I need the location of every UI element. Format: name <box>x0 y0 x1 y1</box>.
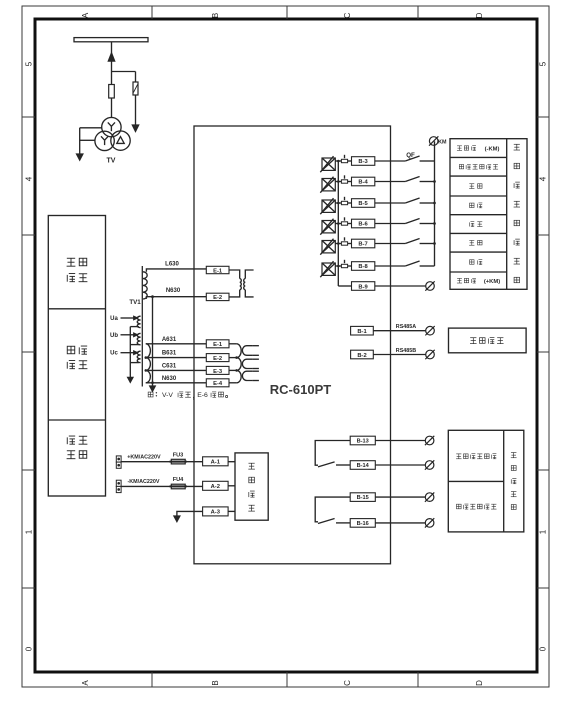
note V-V wiring text <box>148 392 228 400</box>
svg-text:B-7: B-7 <box>358 242 367 248</box>
wire power - to fuse FU4 <box>121 485 171 487</box>
label Ub <box>110 333 118 339</box>
svg-text:4: 4 <box>25 176 34 181</box>
svg-text:A-2: A-2 <box>211 484 220 490</box>
wire B-9 row <box>338 285 351 287</box>
svg-text:B-13: B-13 <box>357 439 369 445</box>
label RS485A <box>396 324 416 330</box>
svg-text:1: 1 <box>25 529 34 534</box>
svg-text:C: C <box>343 680 352 686</box>
terminal A-2 <box>203 481 229 490</box>
svg-text:B-16: B-16 <box>357 521 369 527</box>
terminal E-3 lower <box>206 366 229 374</box>
terminal E-2 upper <box>206 293 229 301</box>
svg-text:B-5: B-5 <box>358 201 368 207</box>
TV1 lower secondary winding group <box>145 344 151 383</box>
label Uc <box>110 351 118 357</box>
optocoupler U6 <box>320 261 335 277</box>
svg-text:D: D <box>475 12 484 18</box>
svg-text:1: 1 <box>539 529 548 534</box>
svg-text:-KM/AC220V: -KM/AC220V <box>127 479 159 485</box>
wire A-1 to power supply <box>228 461 235 463</box>
svg-text:B-9: B-9 <box>358 284 368 290</box>
svg-text:L630: L630 <box>165 261 179 267</box>
fuse FU3 <box>170 459 187 464</box>
wire TV1 primary common <box>130 327 139 378</box>
wire A-3 to power supply <box>228 510 235 512</box>
wire FU4 to A-2 <box>185 485 202 487</box>
terminal circle RS485A <box>425 326 434 335</box>
svg-text:TV1: TV1 <box>129 299 141 306</box>
optocoupler U4 <box>320 219 335 235</box>
label KM <box>438 140 447 146</box>
terminal B-6 <box>352 219 375 228</box>
fuse FU1 <box>109 85 115 99</box>
wire B-5 to switch <box>375 202 406 204</box>
wire opto to resistor row B-8 <box>335 265 341 267</box>
wire N630 lower <box>146 382 207 384</box>
terminal B-13 <box>350 436 375 445</box>
svg-text:RS485B: RS485B <box>396 348 416 354</box>
svg-text:C: C <box>343 12 352 18</box>
terminal B-5 <box>352 199 375 208</box>
terminal B-7 <box>352 239 375 248</box>
svg-text:B-8: B-8 <box>358 264 368 270</box>
svg-text:E-2: E-2 <box>213 356 222 362</box>
label -KM/AC220V <box>127 479 159 485</box>
busbar <box>74 38 148 42</box>
svg-text:E-3: E-3 <box>213 369 223 375</box>
wire resistor to terminal B-3 <box>348 160 352 162</box>
wire L630 <box>146 269 206 272</box>
resistor R8 <box>341 260 347 268</box>
optocoupler U3 <box>320 198 335 214</box>
TV1 primary winding Ub <box>137 333 140 344</box>
svg-text:E-1: E-1 <box>213 268 223 274</box>
wire resistor to terminal B-4 <box>348 181 352 183</box>
svg-text:C631: C631 <box>162 364 177 370</box>
wire opto to resistor row B-3 <box>335 160 341 162</box>
resistor R6 <box>341 217 347 225</box>
wire B-7 to switch <box>375 243 406 245</box>
fuse FU2 <box>133 82 138 95</box>
label B631 <box>162 351 177 357</box>
metering transformer lower secondary windings <box>242 346 259 381</box>
wire A-2 to power supply <box>228 485 235 487</box>
resistor R3 <box>341 155 347 163</box>
switch contact row B-5 <box>405 198 434 203</box>
TV1 primary winding Ua <box>137 316 140 327</box>
switch contact row B-7 <box>405 239 434 244</box>
table row spare 5 <box>470 260 483 265</box>
terminal circle B-15 <box>425 492 434 501</box>
wire TV secondary leads <box>80 128 102 154</box>
relay contact K2 wiring <box>315 497 350 523</box>
svg-text:E-6: E-6 <box>197 392 208 399</box>
terminal B-15 <box>350 493 375 502</box>
terminal KM <box>429 136 438 145</box>
terminal block power - <box>116 480 121 492</box>
svg-text:(+KM): (+KM) <box>484 279 500 285</box>
svg-text:B-6: B-6 <box>358 222 368 228</box>
terminal block power + <box>116 456 121 468</box>
voltage transformer TV <box>95 117 130 150</box>
optocoupler U1 <box>320 156 335 172</box>
svg-text:B-3: B-3 <box>358 159 368 165</box>
wire B-3 to switch <box>375 160 406 162</box>
label accident signal output <box>456 504 496 509</box>
table row common +KM <box>457 278 500 285</box>
ground arrow A-3 <box>174 516 180 522</box>
wire B631 <box>146 357 207 359</box>
svg-text:0: 0 <box>25 646 34 651</box>
svg-text:5: 5 <box>25 61 34 66</box>
wire RS485A <box>373 330 425 332</box>
svg-text:B-14: B-14 <box>357 463 370 469</box>
wire N630 vertical link <box>151 295 154 386</box>
svg-text:A631: A631 <box>162 337 177 343</box>
svg-text:B: B <box>211 680 220 685</box>
wire B-4 to switch <box>375 181 406 183</box>
optocoupler U5 <box>320 239 335 255</box>
svg-text:A-1: A-1 <box>211 460 221 466</box>
label QF <box>406 152 415 159</box>
svg-text:FU4: FU4 <box>173 477 184 483</box>
table row common -KM <box>457 146 500 153</box>
svg-text:E-1: E-1 <box>213 342 223 348</box>
svg-text:RC-610PT: RC-610PT <box>270 382 331 397</box>
svg-text:A-3: A-3 <box>211 510 221 516</box>
svg-text:5: 5 <box>539 61 548 66</box>
wire opto to resistor row B-5 <box>335 202 341 204</box>
terminal B-14 <box>350 461 375 470</box>
svg-text:D: D <box>475 680 484 686</box>
optocoupler U2 <box>320 177 335 193</box>
svg-text:B-4: B-4 <box>358 180 368 186</box>
wire resistor to terminal B-8 <box>348 265 352 267</box>
wire Uc input <box>121 351 138 355</box>
svg-text:4: 4 <box>539 176 548 181</box>
terminal circle B-13 <box>425 436 434 445</box>
svg-text:V-V: V-V <box>162 392 173 399</box>
svg-text:0: 0 <box>539 646 548 651</box>
wire B-16 to terminal circle <box>375 522 425 524</box>
table row spare 3 <box>470 222 483 227</box>
svg-text:Ua: Ua <box>110 316 118 322</box>
TV1 primary winding Uc <box>137 351 140 362</box>
table row spare 2 <box>470 203 483 208</box>
svg-text:A: A <box>81 680 90 686</box>
relay contact K1 wiring <box>315 441 350 467</box>
wire resistor to terminal B-5 <box>348 202 352 204</box>
wire resistor to terminal B-7 <box>348 243 352 245</box>
table column switch acquisition input label <box>514 144 520 282</box>
device box RC-610PT <box>194 126 391 564</box>
wire A-3 ground <box>177 511 203 516</box>
terminal B-2 <box>351 350 374 359</box>
label N630 lower <box>162 376 177 382</box>
svg-text:Ub: Ub <box>110 333 118 339</box>
switch input table <box>450 139 527 290</box>
wire resistor to terminal B-6 <box>348 223 352 225</box>
wire RS485B <box>373 354 425 356</box>
svg-text:A: A <box>81 12 90 18</box>
svg-text:RS485A: RS485A <box>396 324 416 330</box>
ground arrow TV secondary <box>76 154 83 161</box>
switch contact row B-3 <box>405 156 434 161</box>
terminal circle B-9 <box>425 281 434 290</box>
terminal circle B-16 <box>425 518 434 527</box>
wire branch to right fuse <box>112 72 136 126</box>
wire B-9 to terminal <box>375 285 426 287</box>
ground arrow N630 <box>150 386 156 392</box>
svg-text:B631: B631 <box>162 351 177 357</box>
terminal B-1 <box>351 326 374 335</box>
wire B-8 to switch <box>375 265 406 267</box>
svg-text:FU3: FU3 <box>173 452 184 458</box>
label +KM/AC220V <box>127 455 161 461</box>
terminal circle B-14 <box>425 460 434 469</box>
wire busbar to TV <box>111 42 113 118</box>
label power input <box>67 436 88 459</box>
terminal E-1 lower <box>206 340 229 348</box>
isolation transformer upper <box>240 270 254 297</box>
wire A631 <box>146 343 207 345</box>
svg-text:N630: N630 <box>166 288 181 294</box>
wire opto to resistor row B-7 <box>335 243 341 245</box>
table row spare 4 <box>469 240 482 245</box>
svg-text:+KM/AC220V: +KM/AC220V <box>127 455 161 461</box>
resistor R5 <box>341 197 347 205</box>
wire opto to resistor row B-4 <box>335 181 341 183</box>
svg-text:B: B <box>211 13 220 18</box>
label A631 <box>162 337 177 343</box>
wire switch common bus to KM <box>433 141 436 266</box>
label relay output column <box>511 453 517 510</box>
svg-text:B-15: B-15 <box>357 495 369 501</box>
svg-text:Uc: Uc <box>110 351 118 357</box>
metering transformer lower primary windings <box>237 344 242 383</box>
svg-text:TV: TV <box>107 158 116 165</box>
svg-text:QF: QF <box>406 152 415 159</box>
terminal A-3 <box>203 507 229 516</box>
label Ua <box>110 316 118 322</box>
wire optocoupler common bus <box>337 160 340 286</box>
label zero-sequence voltage <box>67 258 88 281</box>
fuse FU4 <box>170 484 187 489</box>
TV1 upper secondary winding <box>143 272 147 299</box>
wire B-14 to terminal circle <box>375 464 425 466</box>
relay output table <box>448 430 524 532</box>
arrow down right branch <box>132 125 139 132</box>
terminal E-2 lower <box>206 354 229 362</box>
label bus voltage <box>67 346 87 369</box>
label FU3 <box>173 452 184 458</box>
label RS485B <box>396 348 416 354</box>
wire B-15 to terminal circle <box>375 496 425 498</box>
switch contact row B-6 <box>405 219 434 224</box>
wire lower E-boxes to metering transformer <box>229 344 238 383</box>
table row handcart position <box>459 164 498 169</box>
wire opto to resistor row B-6 <box>335 223 341 225</box>
terminal A-1 <box>203 457 229 466</box>
svg-text:E-2: E-2 <box>213 295 222 301</box>
wire power + to fuse FU3 <box>121 461 171 463</box>
switch contact row B-8 <box>405 261 434 266</box>
terminal B-9 <box>352 282 375 291</box>
ground arrow TV1 primary <box>127 377 133 382</box>
svg-text:E-4: E-4 <box>213 381 223 387</box>
communication interface box <box>449 328 527 353</box>
svg-text:(-KM): (-KM) <box>485 146 500 152</box>
terminal B-3 <box>352 157 375 166</box>
terminal B-8 <box>352 262 375 271</box>
wire E-1 E-2 to isolation transformer <box>229 270 240 297</box>
table row spare 1 <box>469 184 482 189</box>
transformer TV1 core <box>141 266 143 387</box>
terminal circle RS485B <box>425 350 434 359</box>
terminal B-16 <box>350 519 375 528</box>
wire Ua input <box>121 316 138 320</box>
label TV1 <box>129 299 141 306</box>
terminal E-1 upper <box>206 266 229 274</box>
label FU4 <box>173 477 184 483</box>
label alarm signal output <box>456 454 496 459</box>
resistor R7 <box>341 237 347 245</box>
svg-text:N630: N630 <box>162 376 177 382</box>
switch contact row B-4 <box>405 177 434 182</box>
svg-text:B-1: B-1 <box>357 329 367 335</box>
wire B-13 to terminal circle <box>375 440 425 442</box>
svg-text:B-2: B-2 <box>357 353 366 359</box>
wire B-6 to switch <box>375 223 406 225</box>
wire C631 <box>146 369 207 371</box>
arrow up on TV feeder <box>108 53 115 62</box>
label N630 upper <box>166 288 181 294</box>
wire Ub input <box>121 333 138 337</box>
wire FU3 to A-1 <box>185 461 202 463</box>
resistor R4 <box>341 175 347 183</box>
left function column box <box>48 216 105 497</box>
wire N630 upper <box>146 297 206 299</box>
terminal B-4 <box>352 177 375 186</box>
switching power supply box <box>235 453 268 520</box>
label TV <box>107 158 116 165</box>
label C631 <box>162 364 177 370</box>
svg-text:KM: KM <box>438 140 447 146</box>
label RC-610PT <box>270 382 331 397</box>
terminal E-4 lower <box>206 379 229 387</box>
label L630 <box>165 261 179 267</box>
